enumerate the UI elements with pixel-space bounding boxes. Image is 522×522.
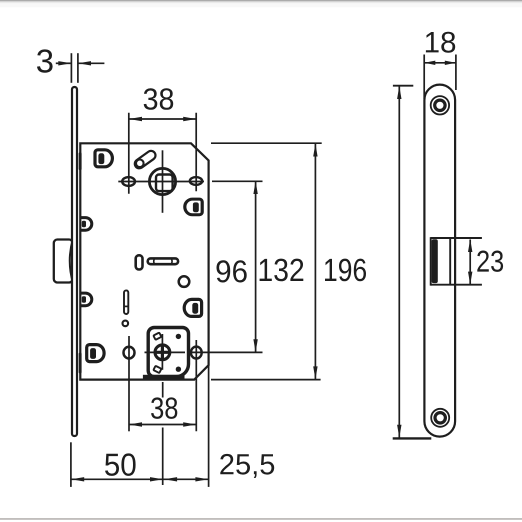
centerline below body — [162, 382, 164, 398]
label 25,5 — [220, 454, 274, 478]
edge slot lower — [79, 353, 82, 374]
handle spindle square hub — [149, 168, 175, 194]
centerline vertical spindle — [162, 150, 164, 213]
small circle right of pills — [179, 276, 190, 287]
top chrome band — [0, 0, 522, 1]
label 96 — [217, 260, 247, 282]
vertical pill slot — [136, 255, 143, 269]
dim 25,5 — [163, 366, 208, 487]
tear slot — [124, 290, 128, 314]
rosette dot bottom — [176, 367, 181, 372]
left edge tab lower — [80, 293, 92, 306]
dim 196 — [393, 86, 432, 439]
bottom chrome line — [0, 518, 522, 520]
keyhole slot (banana) — [136, 155, 151, 167]
latch bolt (side view) — [54, 239, 73, 283]
label 3 — [37, 49, 53, 72]
left M5 screw hole — [122, 177, 135, 186]
rosette mini-rect bottom — [153, 366, 161, 373]
horizontal pill slot — [148, 258, 178, 264]
left cross hole — [124, 347, 135, 359]
label 132 — [260, 259, 304, 282]
dim 18 — [424, 55, 456, 100]
left edge tab upper — [80, 218, 92, 231]
dim 96 — [212, 181, 263, 352]
right M5 screw hole — [190, 177, 202, 185]
bottom screw hole — [431, 409, 449, 427]
centerline horizontal through spindle — [118, 181, 204, 183]
label 38 top — [144, 88, 174, 110]
edge slot upper — [79, 152, 82, 170]
label 196 — [325, 259, 366, 282]
D-clip left lower — [87, 345, 104, 362]
lock body outline — [80, 143, 208, 379]
label 38 bottom — [151, 397, 177, 419]
latch front view — [431, 237, 482, 285]
label 50 — [105, 453, 136, 476]
centerline vertical left M5 / 38 extension — [128, 113, 130, 194]
faceplate front view — [424, 85, 455, 437]
dim 132 — [211, 143, 322, 379]
centerline vertical right cross hole / 38 extension — [195, 340, 197, 431]
centerline horizontal WC axis — [145, 351, 186, 353]
dim 38 bottom — [129, 422, 196, 426]
right cross hole — [191, 347, 202, 359]
label 23 — [477, 251, 503, 272]
dim 3 — [56, 53, 105, 83]
dim 50 — [71, 442, 163, 487]
centerline vertical left cross hole / 38 extension — [128, 336, 130, 431]
centerline vertical WC hub — [161, 334, 163, 370]
rosette dot top — [176, 334, 181, 339]
small circle below tear slot — [123, 321, 129, 327]
rosette mini-rect top — [153, 333, 161, 340]
centerline vertical right M5 / 38 extension — [195, 113, 197, 192]
D-clip right lower — [184, 299, 201, 316]
label 18 — [426, 32, 455, 53]
dim 38 top — [129, 117, 196, 121]
dim 23 — [468, 239, 472, 285]
D-clip top-left — [95, 150, 112, 167]
D-clip right upper — [185, 199, 202, 215]
WC rosette mounting plate — [148, 328, 188, 377]
top screw hole — [431, 96, 449, 114]
WC spindle hub — [154, 344, 170, 360]
faceplate (side/edge view) — [72, 87, 77, 436]
